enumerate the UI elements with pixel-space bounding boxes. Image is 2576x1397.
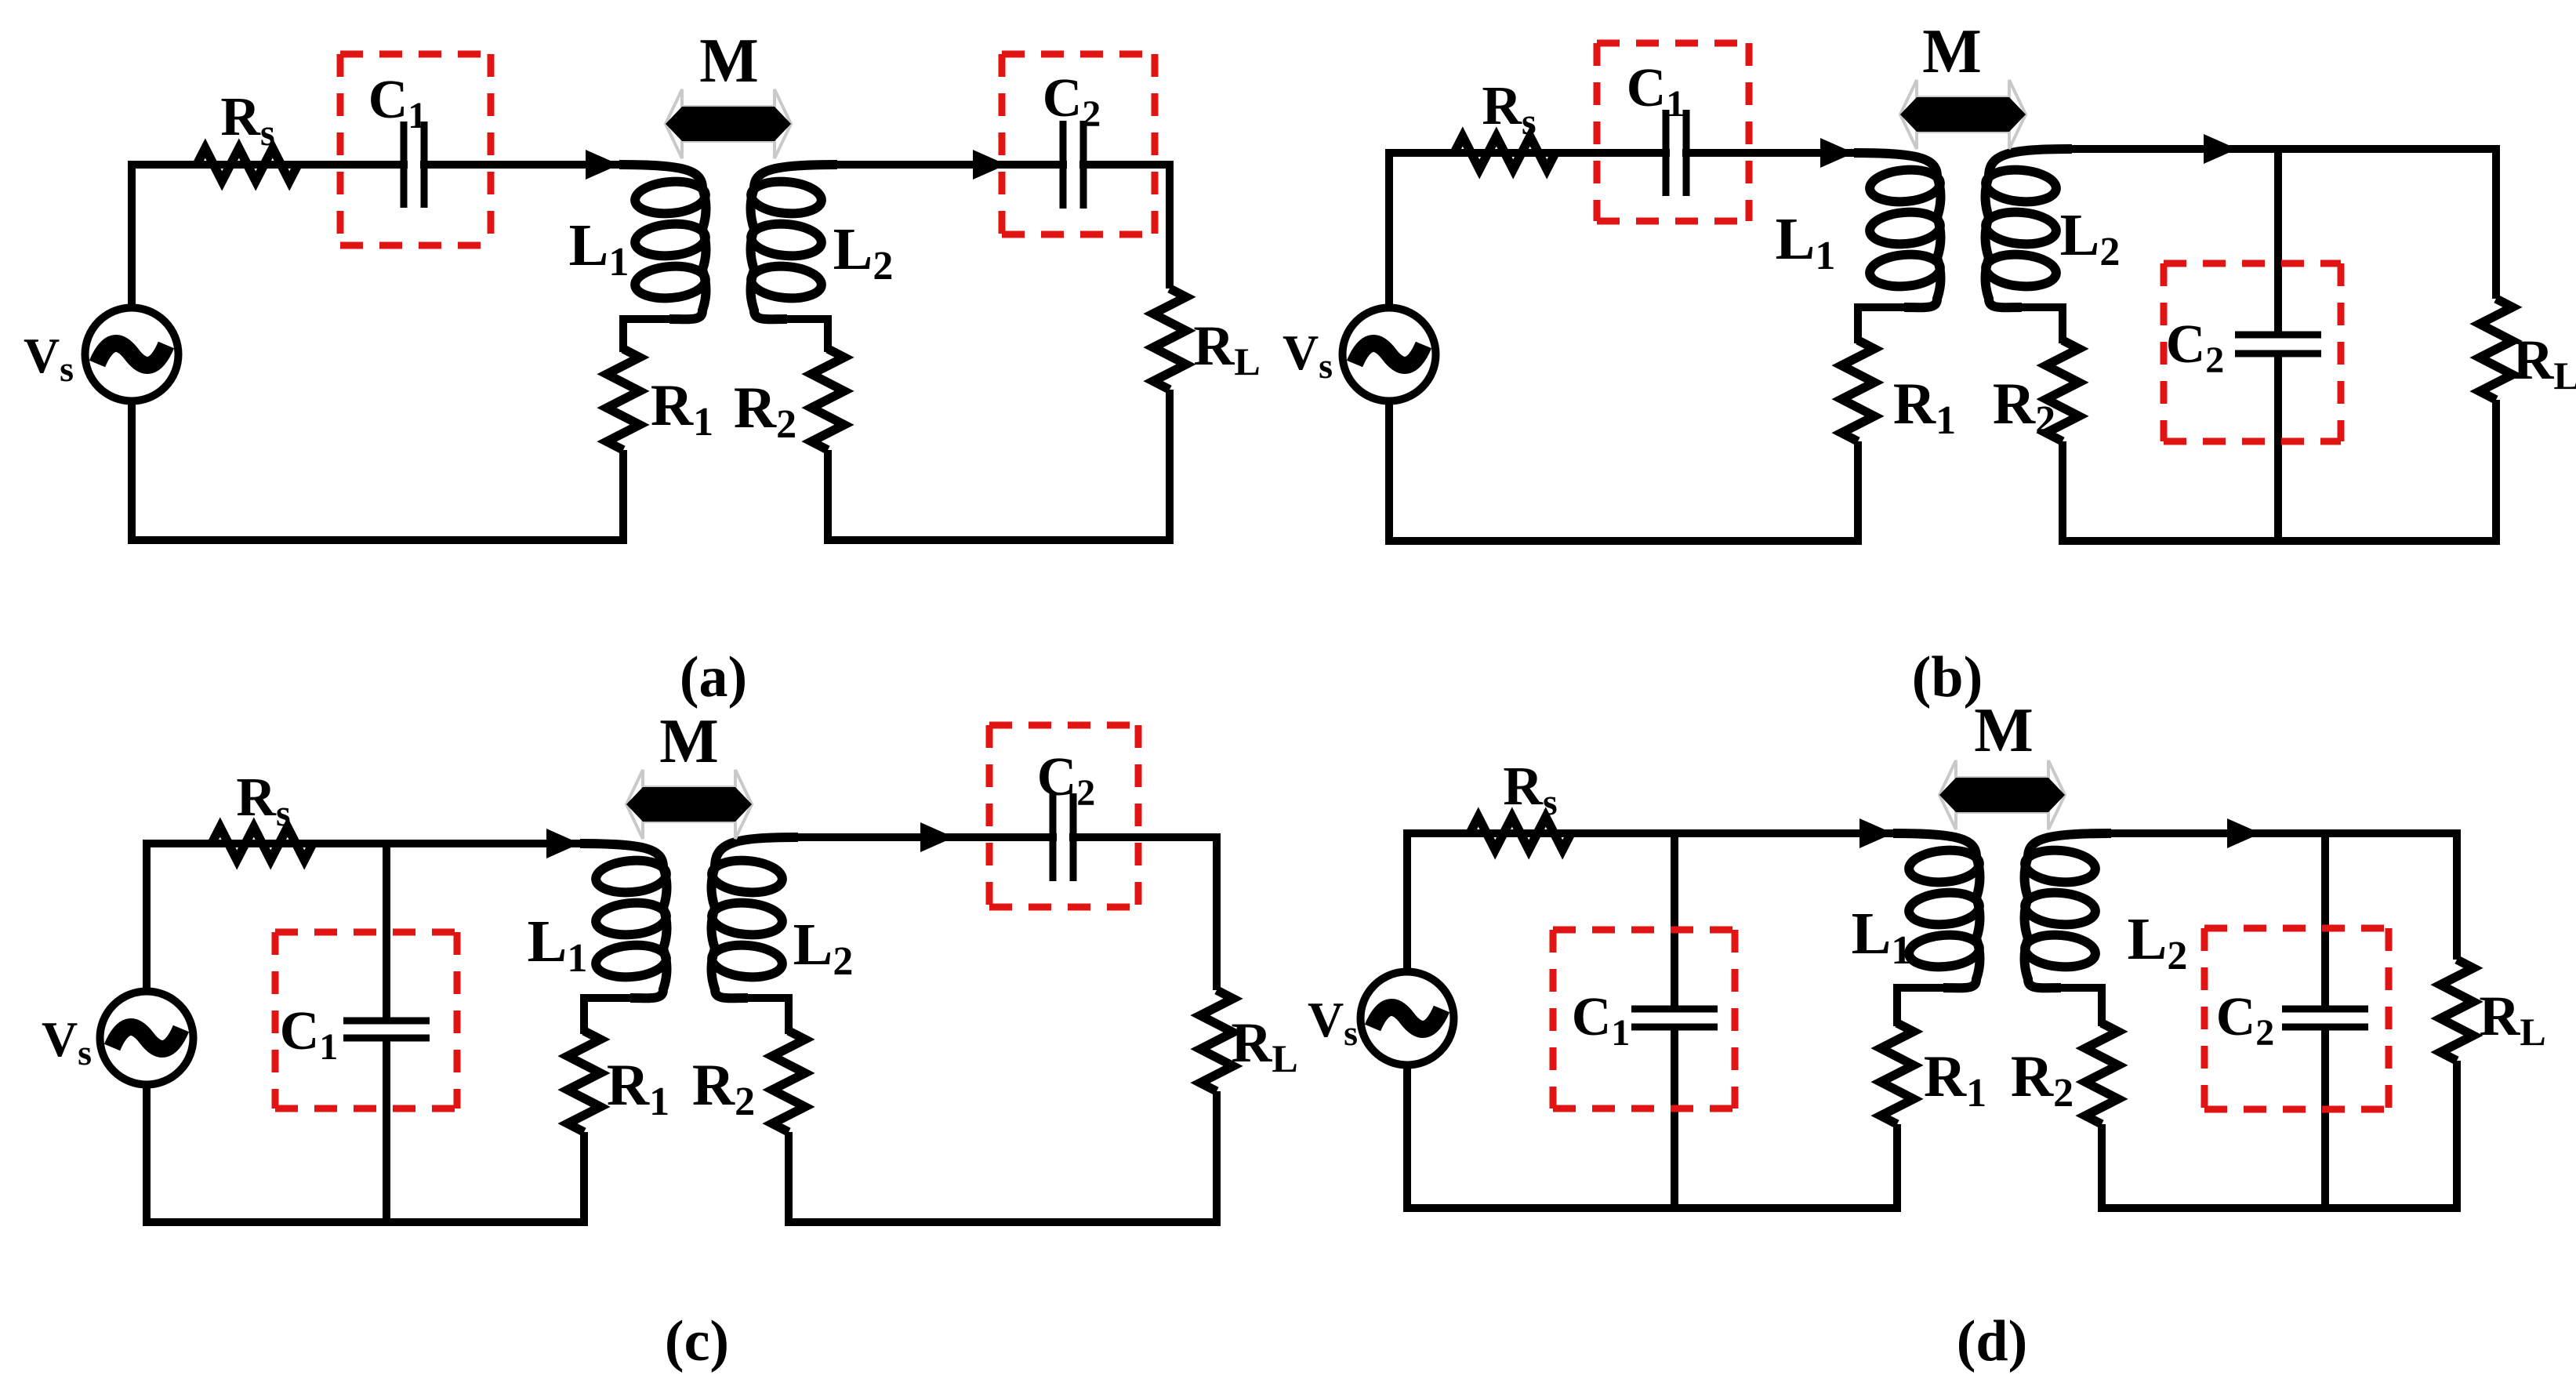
svg-text:M: M (1974, 696, 2034, 765)
svg-text:M: M (1922, 17, 1982, 86)
svg-text:(c): (c) (665, 1309, 729, 1373)
svg-text:M: M (699, 27, 759, 96)
svg-text:(d): (d) (1957, 1309, 2027, 1373)
svg-text:M: M (659, 707, 719, 776)
svg-text:(a): (a) (680, 645, 747, 709)
svg-text:(b): (b) (1912, 645, 1983, 709)
